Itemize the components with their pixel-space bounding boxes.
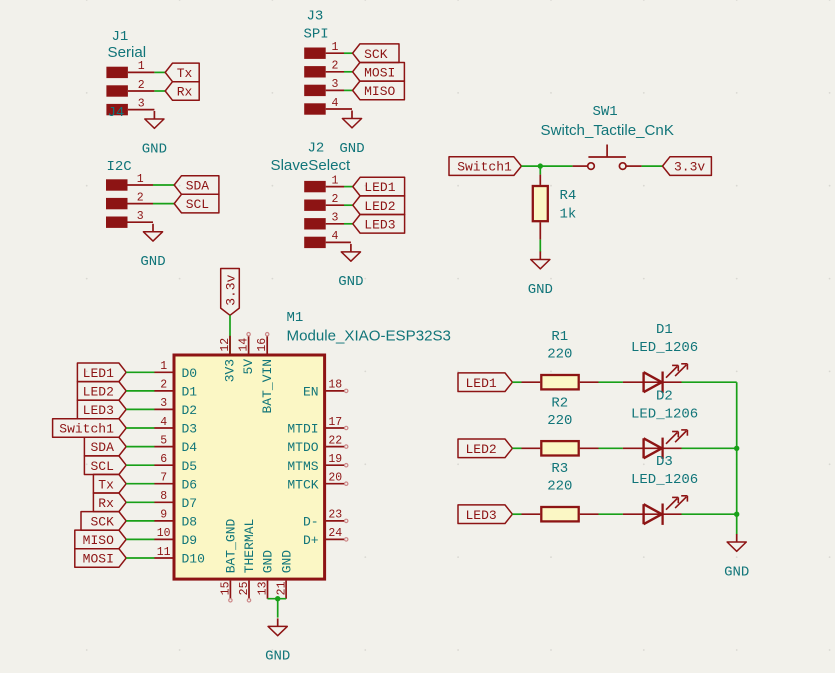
connector I2C pin 3 <box>106 210 153 228</box>
svg-text:9: 9 <box>160 509 167 522</box>
svg-text:1: 1 <box>332 174 339 187</box>
svg-text:Switch1: Switch1 <box>457 160 512 175</box>
module M1 pin 1 D0 <box>154 360 197 381</box>
svg-text:4: 4 <box>160 416 167 429</box>
svg-text:23: 23 <box>328 509 342 522</box>
hierarchical label SDA <box>174 176 219 195</box>
wire R2 to D2 <box>599 447 623 449</box>
svg-text:1: 1 <box>332 41 339 54</box>
LED D1 <box>623 364 688 393</box>
svg-text:GND: GND <box>261 550 276 574</box>
connector J3 pin 4 <box>304 97 352 115</box>
svg-text:THERMAL: THERMAL <box>242 519 257 574</box>
svg-text:SPI: SPI <box>304 27 329 43</box>
svg-text:D0: D0 <box>182 366 198 381</box>
svg-text:25: 25 <box>238 581 251 595</box>
connector J2 pin 3 <box>304 212 344 230</box>
module M1 pin 6 D5 <box>154 453 197 474</box>
connector I2C pin 2 <box>106 191 153 209</box>
svg-text:R2: R2 <box>551 395 568 411</box>
junction below M1 <box>275 596 280 601</box>
wire J3 pin3 to MISO <box>344 89 353 91</box>
connector J2 pin 4 <box>304 230 351 248</box>
svg-text:GND: GND <box>528 282 553 298</box>
svg-text:15: 15 <box>220 581 233 595</box>
wire J3 pin1 to SCK <box>344 52 353 54</box>
svg-text:LED1: LED1 <box>83 366 114 381</box>
svg-text:D8: D8 <box>182 515 198 530</box>
wire I2C pin1 to SDA <box>153 184 174 186</box>
svg-text:MTDO: MTDO <box>287 440 318 455</box>
wire SDA to M1 pin 5 <box>126 446 154 448</box>
module M1 pin 13 GND (bottom) <box>257 550 276 599</box>
svg-text:J2: J2 <box>308 140 325 156</box>
resistor R1 <box>522 375 599 389</box>
module M1 pin 23 D- (unconnected) <box>303 509 348 530</box>
svg-text:I2C: I2C <box>107 159 132 175</box>
hierarchical label Switch1 (M1 left) <box>53 419 127 438</box>
svg-text:220: 220 <box>547 413 572 429</box>
module M1 pin 2 D1 <box>154 379 197 400</box>
svg-text:LED1: LED1 <box>364 180 395 195</box>
svg-text:1k: 1k <box>560 207 577 223</box>
svg-text:22: 22 <box>328 434 342 447</box>
svg-text:D2: D2 <box>656 388 673 404</box>
wire junction to R4 <box>539 166 541 175</box>
ground symbol at J1 pin 3 <box>142 111 167 157</box>
svg-text:7: 7 <box>160 472 167 485</box>
svg-text:4: 4 <box>332 230 339 243</box>
svg-text:Serial: Serial <box>108 44 147 61</box>
svg-text:17: 17 <box>328 416 342 429</box>
hierarchical label Tx (M1 left) <box>93 474 126 493</box>
svg-text:5V: 5V <box>241 359 256 375</box>
svg-text:M1: M1 <box>287 310 304 326</box>
hierarchical label MISO <box>353 81 405 100</box>
LED D2 <box>623 430 688 459</box>
svg-text:LED2: LED2 <box>466 442 497 457</box>
svg-text:2: 2 <box>138 79 145 92</box>
hierarchical label LED2 (J2) <box>353 196 405 215</box>
svg-text:D5: D5 <box>182 459 198 474</box>
wire Switch1 to M1 pin 4 <box>126 427 154 429</box>
svg-text:LED_1206: LED_1206 <box>631 406 698 422</box>
svg-text:Switch_Tactile_CnK: Switch_Tactile_CnK <box>541 122 674 139</box>
ground symbol at I2C pin 3 <box>140 224 165 270</box>
hierarchical label LED2 (M1 left) <box>77 382 126 401</box>
svg-text:3.3v: 3.3v <box>674 160 705 175</box>
connector J3 pin 1 <box>304 41 344 59</box>
svg-text:Tx: Tx <box>177 66 193 81</box>
svg-text:3: 3 <box>332 212 339 225</box>
svg-text:5: 5 <box>160 434 167 447</box>
connector J1 pin 1 <box>106 60 154 78</box>
module M1 pin 4 D3 <box>154 416 197 437</box>
svg-text:Rx: Rx <box>177 85 193 100</box>
hierarchical label LED1 (LED circuit) <box>458 373 512 392</box>
svg-text:GND: GND <box>142 141 167 157</box>
svg-text:SCL: SCL <box>90 459 113 474</box>
svg-text:D3: D3 <box>182 422 198 437</box>
svg-text:20: 20 <box>328 472 342 485</box>
hierarchical label LED1 (J2) <box>353 177 405 196</box>
wire LED1 to R1 <box>512 381 521 383</box>
hierarchical label SCK <box>353 44 399 63</box>
svg-text:GND: GND <box>265 649 290 665</box>
svg-text:LED_1206: LED_1206 <box>631 472 698 488</box>
svg-text:SDA: SDA <box>186 179 210 194</box>
module M1 pin 18 EN (unconnected) <box>303 379 348 400</box>
power label 3.3v (at SW1) <box>663 157 712 176</box>
svg-text:MTMS: MTMS <box>287 459 318 474</box>
svg-text:24: 24 <box>328 527 342 540</box>
svg-text:D+: D+ <box>303 533 319 548</box>
svg-text:BAT_VIN: BAT_VIN <box>260 359 275 414</box>
svg-text:MTCK: MTCK <box>287 477 318 492</box>
wire J1 pin1 to Tx <box>154 71 165 73</box>
wire MISO to M1 pin 10 <box>126 538 154 540</box>
module M1 pin 12 3V3 (top) <box>219 336 238 383</box>
connector J2 pin 1 <box>304 174 344 192</box>
svg-text:D-: D- <box>303 515 319 530</box>
hierarchical label Rx <box>165 82 199 101</box>
svg-text:Module_XIAO-ESP32S3: Module_XIAO-ESP32S3 <box>287 328 451 345</box>
svg-text:14: 14 <box>237 338 250 352</box>
module M1 pin 10 D9 <box>154 527 197 548</box>
svg-text:220: 220 <box>547 479 572 495</box>
resistor R2 <box>522 441 599 455</box>
wire R1 to D1 <box>599 381 623 383</box>
svg-text:3: 3 <box>138 97 145 110</box>
svg-text:EN: EN <box>303 385 319 400</box>
module M1 pin 17 MTDI (unconnected) <box>287 416 348 437</box>
wire J2 pin1 to LED1 <box>344 186 353 188</box>
module M1 pin 22 MTDO (unconnected) <box>287 434 348 455</box>
svg-text:3.3v: 3.3v <box>224 274 239 305</box>
resistor R4 <box>533 175 548 240</box>
svg-text:21: 21 <box>275 581 288 595</box>
wire SW1 to 3.3v <box>642 165 663 167</box>
wire J1 pin2 to Rx <box>154 90 165 92</box>
wire junction to GND below M1 <box>277 599 279 618</box>
svg-text:D1: D1 <box>182 385 198 400</box>
module M1 pin 5 D4 <box>154 434 197 455</box>
svg-text:BAT_GND: BAT_GND <box>224 518 239 573</box>
wire LED3 to R3 <box>512 513 521 515</box>
wire 3.3v to M1 pin 12 <box>229 315 231 353</box>
svg-text:LED2: LED2 <box>83 385 114 400</box>
hierarchical label SCL (M1 left) <box>84 456 126 475</box>
wire D3 to GND bus <box>682 513 737 515</box>
svg-text:MISO: MISO <box>364 84 395 99</box>
svg-text:18: 18 <box>328 379 342 392</box>
svg-text:LED3: LED3 <box>364 217 395 232</box>
svg-text:2: 2 <box>137 191 144 204</box>
module M1 pin 20 MTCK (unconnected) <box>287 472 348 493</box>
module M1 pin 11 D10 <box>154 546 205 567</box>
svg-text:D1: D1 <box>656 322 673 338</box>
svg-text:SW1: SW1 <box>593 104 618 120</box>
wire SCL to M1 pin 6 <box>126 464 154 466</box>
wire GND bus vertical <box>736 382 738 534</box>
connector J3 pin 2 <box>304 60 344 78</box>
svg-text:2: 2 <box>332 60 339 73</box>
wire LED2 to M1 pin 2 <box>126 390 154 392</box>
svg-text:J3: J3 <box>307 9 324 25</box>
ground symbol at J2 pin 4 <box>338 244 363 290</box>
module M1 pin 8 D7 <box>154 490 197 511</box>
wire I2C pin2 to SCL <box>153 203 174 205</box>
hierarchical label LED3 (M1 left) <box>77 400 126 419</box>
svg-text:SDA: SDA <box>90 440 114 455</box>
svg-text:J4: J4 <box>108 105 125 121</box>
svg-text:3: 3 <box>137 210 144 223</box>
svg-text:LED1: LED1 <box>466 376 497 391</box>
resistor R3 <box>522 507 599 521</box>
svg-text:GND: GND <box>279 550 294 574</box>
hierarchical label LED3 (J2) <box>353 215 405 234</box>
wire Rx to M1 pin 8 <box>126 501 154 503</box>
module M1 pin 19 MTMS (unconnected) <box>287 453 348 474</box>
hierarchical label LED3 (LED circuit) <box>458 505 512 524</box>
wire D2 to GND bus <box>682 447 737 449</box>
hierarchical label MOSI (M1 left) <box>75 549 126 568</box>
switch SW1 symbol <box>573 145 642 170</box>
svg-text:Tx: Tx <box>98 477 114 492</box>
svg-text:SlaveSelect: SlaveSelect <box>271 157 352 174</box>
hierarchical label SDA (M1 left) <box>84 437 126 456</box>
module M1 pin 25 THERMAL (bottom) <box>238 519 257 602</box>
LED D3 <box>623 496 688 525</box>
wire Tx to M1 pin 7 <box>126 483 154 485</box>
svg-text:6: 6 <box>160 453 167 466</box>
svg-text:1: 1 <box>160 360 167 373</box>
ground symbol LED circuit <box>724 534 749 580</box>
connector J3 pin 3 <box>304 78 344 96</box>
hierarchical label LED1 (M1 left) <box>77 363 126 382</box>
junction at Switch1 node <box>538 163 543 168</box>
wire J2 pin2 to LED2 <box>344 204 353 206</box>
ground symbol at R4 <box>528 252 553 298</box>
svg-text:LED3: LED3 <box>466 508 497 523</box>
svg-text:LED_1206: LED_1206 <box>631 340 698 356</box>
svg-text:3V3: 3V3 <box>223 359 238 382</box>
svg-text:R3: R3 <box>551 461 568 477</box>
svg-text:D7: D7 <box>182 496 198 511</box>
wire Switch1 label to junction <box>521 165 572 167</box>
svg-text:LED2: LED2 <box>364 199 395 214</box>
wire R3 to D3 <box>599 513 623 515</box>
svg-text:16: 16 <box>256 338 269 352</box>
module M1 pin 16 BAT_VIN (top) <box>256 333 275 414</box>
svg-text:1: 1 <box>137 173 144 186</box>
wire R4 to GND <box>539 240 541 253</box>
svg-text:SCK: SCK <box>90 515 114 530</box>
wire M1 pin13 to pin21 <box>268 598 287 600</box>
hierarchical label MOSI <box>353 63 405 82</box>
svg-text:D2: D2 <box>182 403 198 418</box>
wire J2 pin3 to LED3 <box>344 223 353 225</box>
svg-text:4: 4 <box>332 97 339 110</box>
hierarchical label Switch1 (SW1) <box>449 157 521 176</box>
power label 3.3v (above M1) <box>221 269 240 316</box>
ground symbol at J3 pin 4 <box>339 111 364 157</box>
svg-text:2: 2 <box>332 193 339 206</box>
connector J2 pin 2 <box>304 193 344 211</box>
hierarchical label LED2 (LED circuit) <box>458 439 512 458</box>
svg-text:10: 10 <box>157 527 171 540</box>
svg-text:GND: GND <box>724 564 749 580</box>
wire D1 to GND bus <box>682 381 737 383</box>
hierarchical label SCK (M1 left) <box>81 512 126 531</box>
svg-text:D10: D10 <box>182 552 205 567</box>
connector J1 pin 3 <box>106 97 154 115</box>
connector I2C pin 1 <box>106 173 153 191</box>
module M1 pin 9 D8 <box>154 509 197 530</box>
svg-text:220: 220 <box>547 347 572 363</box>
module M1 body <box>174 355 325 579</box>
connector J1 pin 2 <box>106 79 154 97</box>
svg-text:D6: D6 <box>182 477 198 492</box>
svg-text:MOSI: MOSI <box>83 552 114 567</box>
svg-text:19: 19 <box>328 453 342 466</box>
wire SCK to M1 pin 9 <box>126 520 154 522</box>
ground symbol below M1 <box>265 618 290 664</box>
svg-text:J1: J1 <box>112 29 129 45</box>
svg-text:D3: D3 <box>656 454 673 470</box>
svg-text:3: 3 <box>332 78 339 91</box>
svg-text:8: 8 <box>160 490 167 503</box>
hierarchical label MISO (M1 left) <box>75 530 126 549</box>
svg-text:11: 11 <box>157 546 171 559</box>
svg-text:3: 3 <box>160 397 167 410</box>
svg-text:Switch1: Switch1 <box>59 422 114 437</box>
svg-text:D4: D4 <box>182 440 198 455</box>
svg-text:D9: D9 <box>182 533 198 548</box>
junction D2 row <box>734 446 739 451</box>
module M1 pin 15 BAT_GND (bottom) <box>220 518 239 602</box>
module M1 pin 21 GND (bottom) <box>275 550 294 599</box>
svg-text:GND: GND <box>338 274 363 290</box>
svg-text:1: 1 <box>138 60 145 73</box>
svg-text:R1: R1 <box>551 329 568 345</box>
module M1 pin 7 D6 <box>154 472 197 493</box>
wire LED3 to M1 pin 3 <box>126 408 154 410</box>
wire LED1 to M1 pin 1 <box>126 371 154 373</box>
wire MOSI to M1 pin 11 <box>126 557 154 559</box>
module M1 pin 24 D+ (unconnected) <box>303 527 348 548</box>
svg-text:GND: GND <box>140 254 165 270</box>
svg-text:SCK: SCK <box>364 47 388 62</box>
svg-text:13: 13 <box>257 581 270 595</box>
wire LED2 to R2 <box>512 447 521 449</box>
svg-text:MTDI: MTDI <box>287 422 318 437</box>
svg-text:SCL: SCL <box>186 197 209 212</box>
svg-text:2: 2 <box>160 379 167 392</box>
junction D3 row <box>734 512 739 517</box>
svg-text:MOSI: MOSI <box>364 65 395 80</box>
module M1 pin 14 5V (top) <box>237 333 256 375</box>
svg-text:12: 12 <box>219 338 232 352</box>
svg-text:MISO: MISO <box>83 533 114 548</box>
svg-text:LED3: LED3 <box>83 403 114 418</box>
svg-text:R4: R4 <box>560 188 577 204</box>
hierarchical label Tx <box>165 63 199 82</box>
wire J3 pin2 to MOSI <box>344 71 353 73</box>
hierarchical label SCL <box>174 194 219 213</box>
module M1 pin 3 D2 <box>154 397 197 418</box>
svg-text:GND: GND <box>339 141 364 157</box>
hierarchical label Rx (M1 left) <box>93 493 126 512</box>
svg-text:Rx: Rx <box>98 496 114 511</box>
